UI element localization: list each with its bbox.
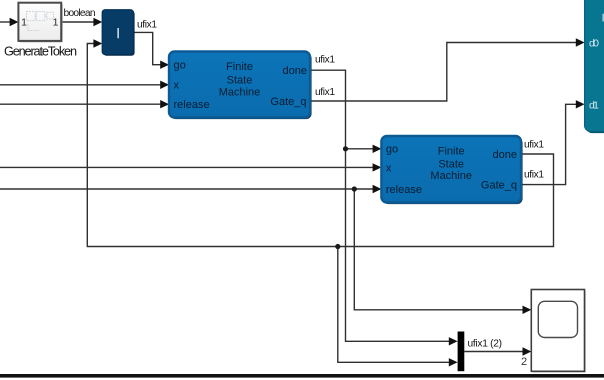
svg-text:d1: d1 [589,99,599,111]
svg-text:go: go [386,144,398,156]
svg-text:Gate_q: Gate_q [270,96,306,108]
svg-text:Finite: Finite [438,146,465,158]
svg-text:ufix1 (2): ufix1 (2) [468,339,503,350]
svg-text:ufix1: ufix1 [315,55,335,66]
svg-text:go: go [174,60,186,72]
svg-text:ufix1: ufix1 [137,20,157,31]
svg-text:x: x [386,162,392,174]
svg-text:ufix1: ufix1 [524,140,544,151]
svg-text:State: State [227,74,253,86]
svg-text:Machine: Machine [430,170,472,182]
svg-text:Gate_q: Gate_q [481,180,517,192]
svg-text:release: release [386,184,422,196]
svg-text:ufix1: ufix1 [315,87,335,98]
svg-text:x: x [174,80,180,92]
svg-text:done: done [283,65,307,77]
svg-text:2: 2 [521,356,527,368]
svg-text:Machine: Machine [219,87,261,99]
svg-text:ufix1: ufix1 [524,170,544,181]
svg-text:State: State [438,158,464,170]
svg-text:boolean: boolean [64,8,96,19]
svg-text:1: 1 [21,16,27,28]
svg-text:1: 1 [53,16,59,28]
svg-text:release: release [174,99,210,111]
svg-text:GenerateToken: GenerateToken [4,45,77,59]
svg-text:done: done [493,149,517,161]
svg-text:Finite: Finite [226,61,253,73]
svg-text:d0: d0 [589,38,599,50]
